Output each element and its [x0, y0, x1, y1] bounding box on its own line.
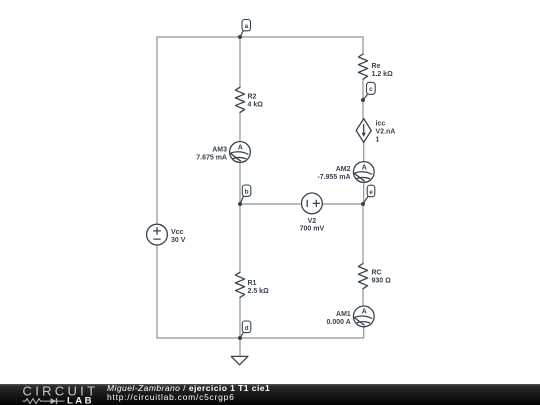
label AM3 7.675 mA	[196, 147, 227, 162]
svg-text:700 mV: 700 mV	[300, 226, 325, 233]
label V2 700 mV	[300, 218, 325, 233]
wire node c to icc	[362, 100, 364, 119]
wire node b to V2	[240, 203, 301, 205]
svg-text:AM2: AM2	[336, 166, 351, 173]
resistor RC	[358, 264, 367, 289]
svg-text:R2: R2	[248, 94, 257, 101]
svg-text:RC: RC	[372, 270, 382, 277]
wire Re to node c	[362, 79, 364, 100]
svg-text:1.2 kΩ: 1.2 kΩ	[372, 71, 394, 78]
wire node a to R2	[239, 37, 241, 88]
svg-text:7.675 mA: 7.675 mA	[196, 155, 227, 162]
node b	[238, 185, 251, 206]
svg-text:1: 1	[376, 136, 380, 143]
wire V2 to node e	[323, 203, 364, 205]
resistor Re	[358, 54, 367, 79]
wire bottom horizontal	[157, 337, 363, 339]
svg-text:Vcc: Vcc	[171, 229, 184, 236]
ground	[231, 356, 248, 364]
voltage source V2	[302, 193, 323, 214]
wire node e to RC	[362, 204, 364, 264]
svg-text:e: e	[369, 189, 373, 196]
svg-text:AM3: AM3	[212, 147, 227, 154]
label RC 930 Ohm	[372, 270, 392, 285]
logo resistor + diode glyph	[23, 398, 65, 404]
resistor R1	[235, 272, 244, 297]
wire top horizontal	[157, 36, 363, 38]
wire RC to AM1	[362, 289, 364, 307]
label R1 2.5 kOhm	[248, 280, 270, 295]
wire AM1 to bottom	[363, 327, 365, 338]
voltage source Vcc	[147, 224, 168, 245]
wire left vertical lower	[156, 245, 158, 338]
svg-text:d: d	[245, 325, 249, 332]
svg-text:-7.955 mA: -7.955 mA	[317, 174, 350, 181]
svg-text:V2.nA: V2.nA	[376, 129, 396, 136]
label icc V2.nA 1	[376, 120, 396, 143]
svg-text:b: b	[245, 189, 249, 196]
svg-text:V2: V2	[308, 218, 317, 225]
svg-text:LAB: LAB	[67, 395, 94, 405]
svg-text:AM1: AM1	[336, 311, 351, 318]
ammeter AM1	[353, 306, 374, 327]
footer bar	[0, 384, 540, 405]
wire R1 to node d	[239, 297, 241, 338]
node d	[238, 321, 251, 340]
node a	[238, 20, 251, 40]
node c	[361, 82, 375, 102]
label AM1 0.000 A	[327, 311, 351, 326]
label Re 1.2 kOhm	[372, 63, 394, 78]
svg-text:Re: Re	[372, 63, 381, 70]
label R2 4 kOhm	[248, 94, 264, 109]
svg-text:A: A	[362, 163, 367, 172]
svg-text:c: c	[369, 86, 373, 93]
svg-text:2.5 kΩ: 2.5 kΩ	[248, 288, 270, 295]
svg-text:A: A	[362, 307, 367, 316]
resistor R2	[235, 87, 244, 112]
wire R2 to AM3	[239, 112, 241, 142]
wire left vertical upper	[156, 37, 158, 224]
svg-text:a: a	[244, 23, 248, 30]
svg-text:0.000 A: 0.000 A	[327, 319, 351, 326]
svg-text:930 Ω: 930 Ω	[372, 278, 392, 285]
ammeter AM2	[353, 162, 374, 183]
wire AM3 to node b	[239, 163, 241, 205]
label Vcc 30 V	[171, 229, 186, 244]
wire AM2 to node e	[363, 182, 365, 204]
svg-text:R1: R1	[248, 280, 257, 287]
svg-text:4 kΩ: 4 kΩ	[248, 102, 264, 109]
label AM2 -7.955 mA	[317, 166, 350, 181]
wire top corner to Re	[362, 37, 364, 55]
svg-text:icc: icc	[376, 120, 386, 127]
wire icc to AM2	[363, 142, 365, 162]
wire ground stem	[239, 338, 241, 356]
svg-text:A: A	[238, 142, 243, 151]
ammeter AM3	[230, 142, 251, 163]
current source icc (diamond)	[356, 119, 371, 143]
svg-text:30 V: 30 V	[171, 237, 186, 244]
svg-text:http://circuitlab.com/c5crgp6: http://circuitlab.com/c5crgp6	[107, 392, 235, 402]
node e	[361, 185, 375, 206]
wire node b to R1	[239, 204, 241, 272]
